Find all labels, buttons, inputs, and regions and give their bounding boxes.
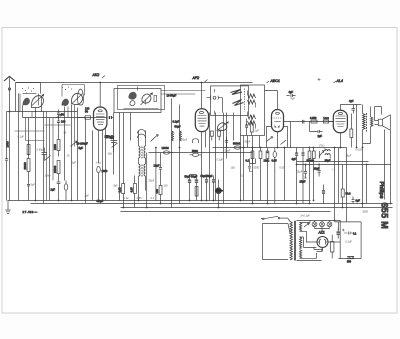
component row: resistor c (266, 148, 269, 204)
wire right risers (357, 105, 391, 204)
svg-text:4μF: 4μF (292, 157, 297, 161)
resistor cathode V4 (350, 114, 353, 148)
wire V2 down (201, 132, 203, 201)
right area lines (297, 144, 391, 208)
svg-text:500: 500 (347, 261, 352, 264)
wire bottom loop right (263, 221, 362, 261)
comb resistor bottom (347, 256, 354, 263)
resistor box x196 (195, 187, 198, 197)
wire primary leads (288, 219, 290, 234)
mains switch (261, 216, 288, 219)
svg-text:0.1: 0.1 (151, 197, 155, 200)
wire bus 3 (121, 207, 393, 209)
svg-text:50μF50μF: 50μF50μF (201, 174, 213, 178)
resistor 20000 col2 (57, 161, 60, 182)
wire box1 to box2 link (161, 91, 206, 95)
svg-text:20000: 20000 (53, 165, 57, 173)
dark cap x323 (322, 185, 325, 204)
resistor 1000 left column upper (27, 141, 30, 155)
wire V1 stem (99, 83, 101, 108)
capacitor coupling (303, 120, 304, 124)
capacitor left small1 (42, 148, 48, 161)
svg-text:2-50μF: 2-50μF (105, 135, 114, 139)
svg-text:4μF: 4μF (291, 98, 296, 101)
tube V4 AL4 (333, 110, 347, 133)
grid cap V2 (207, 96, 223, 113)
svg-text:AZ1: AZ1 (318, 231, 325, 235)
tube V2 AF2 (195, 109, 208, 132)
component row: coil j (325, 148, 330, 159)
label pointer AK2 (102, 76, 105, 79)
svg-text:4μF: 4μF (349, 99, 354, 103)
capacitor 2uF coupling (310, 130, 323, 138)
svg-text:5μF: 5μF (72, 162, 77, 165)
tube V1 AK2 (94, 107, 107, 130)
svg-text:20000: 20000 (23, 162, 27, 170)
wire speaker loop (363, 107, 382, 144)
capacitor 25uF x305 (300, 165, 308, 184)
label pointer AL4 (334, 81, 337, 83)
tube V3 ABC1 (272, 110, 284, 132)
resistor oval 1000ohm (64, 181, 68, 201)
wire V2 pin2 (205, 132, 207, 148)
capacitor bottom right dark (337, 232, 357, 236)
wire lamp top bus (297, 220, 341, 222)
svg-text:1ΩΩ: 1ΩΩ (323, 116, 328, 120)
svg-text:·5μF: ·5μF (113, 185, 119, 188)
component row: resistor g (308, 148, 311, 204)
svg-text:ABC1: ABC1 (270, 79, 280, 83)
svg-text:4.35: 4.35 (130, 187, 134, 193)
svg-text:AK2: AK2 (92, 73, 100, 77)
resistor 20000 left column (27, 155, 30, 185)
label pointer AF2 (205, 80, 208, 83)
svg-text:25μF: 25μF (346, 155, 352, 158)
resistor 0.052 (311, 120, 317, 123)
wire V3 down (277, 132, 279, 148)
output transformer secondary (371, 107, 373, 138)
svg-text:4·35: 4·35 (137, 197, 143, 200)
capacitor 2uF col2 (57, 182, 61, 201)
svg-text:1.12: 1.12 (118, 187, 122, 193)
wire ground bus 2 (31, 203, 393, 205)
svg-text:27·/33•••: 27·/33••• (23, 210, 38, 214)
variometer wing below box2 (217, 121, 229, 131)
coil T2a (248, 91, 256, 108)
svg-text:10-50μF: 10-50μF (167, 94, 177, 98)
svg-text:10μF: 10μF (154, 164, 160, 168)
pilot lamp 3 (327, 221, 332, 229)
svg-text:50.0: 50.0 (346, 192, 352, 196)
wire bus 4 (121, 211, 331, 213)
plus mark (318, 78, 321, 81)
svg-text:4μF: 4μF (289, 90, 294, 94)
svg-text:50μF: 50μF (182, 139, 188, 142)
resistor oval on HT (234, 146, 241, 149)
wire mains lower (263, 223, 289, 225)
capacitor pair 50-100 (57, 110, 60, 126)
node ant junction (9, 111, 11, 113)
resistor box col x134 (134, 176, 137, 208)
coil T2b (248, 112, 256, 129)
svg-text:100: 100 (61, 120, 66, 124)
svg-text:100: 100 (85, 107, 90, 111)
svg-text:5000: 5000 (254, 167, 260, 170)
svg-text:655 M: 655 M (380, 203, 390, 230)
resistor oval below V1 (97, 166, 101, 200)
dark cap right of V1 (109, 116, 114, 119)
coil L1 antenna wing pair (23, 94, 45, 108)
dark cap below V1 (105, 135, 114, 140)
capacitor trimmer pair box1 (111, 136, 118, 153)
wire V4 grid left (329, 121, 334, 123)
svg-text:0.5: 0.5 (241, 175, 245, 178)
label cluster mid band (67, 98, 369, 244)
svg-text:5μF: 5μF (31, 184, 36, 187)
coil top loop below V2 (193, 139, 199, 143)
svg-text:0.05: 0.05 (280, 167, 285, 170)
resistor box x160 (159, 173, 162, 204)
pilot lamp 1 (312, 221, 317, 229)
svg-text:√·2: √·2 (332, 168, 336, 172)
wire secondary taps (300, 223, 323, 259)
wire ground bus 1 (8, 200, 311, 202)
svg-text:2×0.1μF: 2×0.1μF (301, 215, 311, 218)
wire inner frame left block (15, 85, 85, 201)
power transformer primary (288, 219, 292, 260)
wire V2 stem (201, 83, 203, 109)
ground (5, 201, 10, 214)
wire T2 box drops (244, 136, 260, 204)
resistor box col x122 (122, 184, 125, 208)
svg-text:5000: 5000 (192, 149, 198, 153)
svg-text:25μF: 25μF (325, 159, 331, 163)
antenna (4, 76, 15, 200)
capacitor 4uF anode (349, 99, 355, 114)
IF transformer T2 box (241, 85, 265, 136)
coil L3 tall loop (78, 89, 84, 105)
wire V4 anode top (341, 105, 362, 111)
svg-text:0.1μF: 0.1μF (346, 241, 353, 244)
svg-text:1Ω: 1Ω (304, 177, 307, 180)
component row: diode arrows i (319, 151, 324, 159)
svg-text:AL4: AL4 (336, 79, 343, 83)
svg-text:1000: 1000 (102, 169, 108, 173)
svg-text:0.05: 0.05 (272, 159, 278, 163)
svg-text:0.1μF: 0.1μF (18, 136, 25, 139)
power transformer secondary HT (300, 223, 302, 259)
tuning box 1 (114, 86, 165, 113)
wire lamps bottom (315, 229, 330, 231)
svg-text:0.003: 0.003 (356, 149, 363, 152)
potentiometer volume (dark) (215, 180, 223, 208)
wire left line y111 (7, 111, 78, 113)
svg-text:25μF: 25μF (300, 180, 306, 184)
svg-text:170Ω: 170Ω (319, 145, 325, 148)
filter cap 8uF plus (337, 228, 345, 239)
tube V5 AZ1 (317, 237, 328, 248)
trimmer arrow near V3 (281, 140, 287, 145)
svg-text:Philips: Philips (378, 182, 384, 199)
power transformer core (295, 221, 296, 261)
IF transformer T1 (138, 130, 146, 201)
component row: oval d (273, 148, 276, 204)
svg-text:5000: 5000 (363, 211, 369, 214)
svg-text:2μF: 2μF (255, 130, 260, 133)
wire box1 drops (114, 113, 131, 201)
speaker (375, 115, 391, 130)
svg-text:50μF 50μF: 50μF 50μF (185, 175, 198, 179)
svg-text:20μF: 20μF (314, 167, 320, 171)
resistor box x251 (250, 116, 253, 136)
svg-text:1MΩ: 1MΩ (264, 159, 270, 163)
svg-text:1·0Ω: 1·0Ω (96, 162, 102, 165)
svg-text:0.052: 0.052 (310, 116, 317, 120)
IF transformer box 2 (211, 86, 249, 116)
wire extra drops center (210, 148, 256, 201)
grid cap V3 (287, 90, 296, 97)
wire input box frame (16, 83, 41, 201)
svg-text:2μF: 2μF (85, 195, 90, 198)
trimmer arrow near T2 (267, 137, 273, 142)
wire left line y117 (23, 117, 91, 119)
wire risers x171 x179 up (172, 99, 180, 153)
wire top bus (16, 82, 253, 84)
dark cap cluster x246 (245, 119, 248, 136)
trimmer diagonal x152 (151, 135, 159, 142)
wire V1 pin down (103, 127, 106, 201)
component row: resistor b (259, 148, 262, 201)
svg-text:AF2: AF2 (192, 76, 200, 80)
trimmer arrows mid-left (45, 114, 78, 160)
coupling row wire (284, 121, 334, 123)
svg-text:0.1μF: 0.1μF (217, 159, 224, 162)
wire drops x155 x171 (156, 148, 180, 208)
wire riser x239 (240, 136, 242, 201)
resistor 100 row (323, 120, 328, 123)
coil L2 wing pair (62, 93, 83, 106)
svg-text:50μF: 50μF (225, 150, 231, 153)
capacitor 10uF mid (159, 153, 162, 173)
svg-text:10Ω: 10Ω (231, 167, 236, 170)
svg-text:50μF: 50μF (175, 125, 181, 129)
capacitor right mid (314, 165, 321, 177)
output transformer primary (363, 105, 366, 144)
component row: resistor h (312, 148, 315, 201)
pilot lamp arrows (304, 221, 310, 228)
trimmer dots cluster 1 (22, 88, 34, 94)
wire box2 drops (210, 113, 234, 201)
svg-text:0.1μF: 0.1μF (173, 120, 180, 124)
wire left verticals (23, 97, 93, 204)
capacitor pair small x249-255 (248, 164, 253, 172)
capacitor right 25uF (352, 197, 361, 204)
wire V1 cathode down (98, 130, 100, 163)
wire riser x223 (223, 113, 225, 204)
svg-text:50μF: 50μF (245, 141, 251, 144)
svg-text:1000: 1000 (53, 144, 57, 150)
svg-text:50•10•: 50•10• (307, 159, 315, 163)
svg-text:1·12: 1·12 (124, 197, 130, 200)
svg-text:1000: 1000 (5, 141, 9, 148)
svg-text:2μF: 2μF (318, 134, 323, 138)
component row y150: resistor a (251, 148, 254, 164)
trimmer dots cluster 2 (62, 87, 72, 91)
svg-text:10-100μF: 10-100μF (77, 142, 89, 146)
capacitor small x226 (225, 137, 228, 148)
svg-text:10000: 10000 (162, 146, 170, 150)
svg-text:8μF: 8μF (356, 199, 361, 203)
wire avc line y152 (149, 152, 253, 154)
svg-text:5μF: 5μF (79, 146, 84, 150)
resistor oval on avc 1 (163, 151, 169, 154)
svg-text:2μF: 2μF (51, 188, 56, 192)
wire V3 stem (265, 91, 278, 110)
resistor oval on avc 2 (190, 153, 202, 156)
svg-text:10·: 10· (67, 155, 71, 158)
wire x146 drop (146, 153, 148, 208)
svg-text:25μF: 25μF (149, 180, 155, 183)
capacitor ant series (5, 112, 8, 201)
label pointer ABC1 (267, 81, 270, 83)
component row: dark cap e (295, 148, 298, 204)
dark cap x206 (205, 176, 208, 201)
wire V3 diode leads (267, 127, 288, 148)
output transformer core (366, 113, 368, 132)
svg-text:100: 100 (164, 185, 169, 188)
resistor 1000 col2 (57, 126, 60, 157)
resistor 50 grid stop (78, 116, 108, 119)
label left small labels (18, 132, 67, 187)
wire AZ1 leads (307, 242, 341, 252)
capacitor pair 50uF 50uF (188, 180, 198, 183)
svg-text:25μF: 25μF (297, 171, 303, 174)
capacitor 0.1 left (27, 185, 30, 201)
resistor 500 right (341, 165, 344, 208)
wire risers mid-right (285, 122, 347, 222)
wire coupling drop (309, 122, 311, 132)
component row: dark cap f (302, 148, 305, 204)
wire caps leads (190, 175, 197, 201)
svg-text:10Ω: 10Ω (108, 153, 113, 156)
pilot lamp 2 (320, 221, 325, 229)
wire V4 down (340, 133, 342, 148)
svg-text:50000: 50000 (233, 142, 241, 146)
svg-text:0.1: 0.1 (246, 159, 250, 163)
dark cap x213 (212, 176, 215, 201)
small rect pair below V2 (210, 131, 220, 141)
choke coil pair x171 x179 (172, 131, 182, 141)
wire HT line y147 (213, 147, 347, 149)
resistor bottom right box (331, 235, 334, 259)
